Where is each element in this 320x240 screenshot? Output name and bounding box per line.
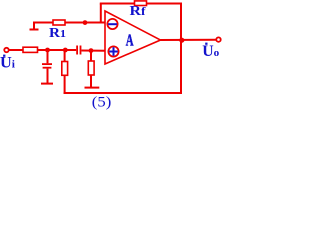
- svg-text:Rf: Rf: [130, 4, 147, 19]
- node A (junction dot): [83, 20, 88, 25]
- ground: [30, 23, 39, 30]
- wire (right vertical of feedback loop): [180, 3, 182, 95]
- resistor R1: [49, 20, 66, 41]
- ground (below shunt resistor): [85, 87, 100, 89]
- wire (feedback tap vertical): [100, 4, 102, 23]
- capacitor (shunt below J1): [42, 50, 52, 83]
- terminal Uo: [202, 37, 220, 59]
- wire: [81, 50, 105, 52]
- terminal Ui: [0, 48, 15, 72]
- wire: [38, 49, 77, 51]
- wire (bottom rail): [64, 92, 182, 94]
- resistor (shunt below J3): [88, 51, 94, 87]
- wire: [65, 22, 106, 24]
- resistor (input, unlabeled): [23, 47, 38, 52]
- resistor Rf: [130, 1, 147, 19]
- node J3: [89, 48, 94, 53]
- node J1: [45, 48, 50, 53]
- svg-text:R1: R1: [49, 26, 66, 41]
- svg-text:A: A: [126, 30, 134, 49]
- node J2: [63, 48, 68, 53]
- ground (below shunt capacitor): [41, 83, 53, 85]
- svg-text:(5): (5): [92, 95, 112, 111]
- op-amp U1: [105, 11, 161, 64]
- resistor (shunt below J2): [62, 50, 68, 94]
- capacitor (series, in input line): [76, 46, 81, 55]
- node output junction: [179, 38, 184, 43]
- wire: [33, 22, 53, 24]
- wire (output): [161, 39, 218, 41]
- wire: [9, 49, 23, 51]
- wire (top rail): [100, 3, 181, 5]
